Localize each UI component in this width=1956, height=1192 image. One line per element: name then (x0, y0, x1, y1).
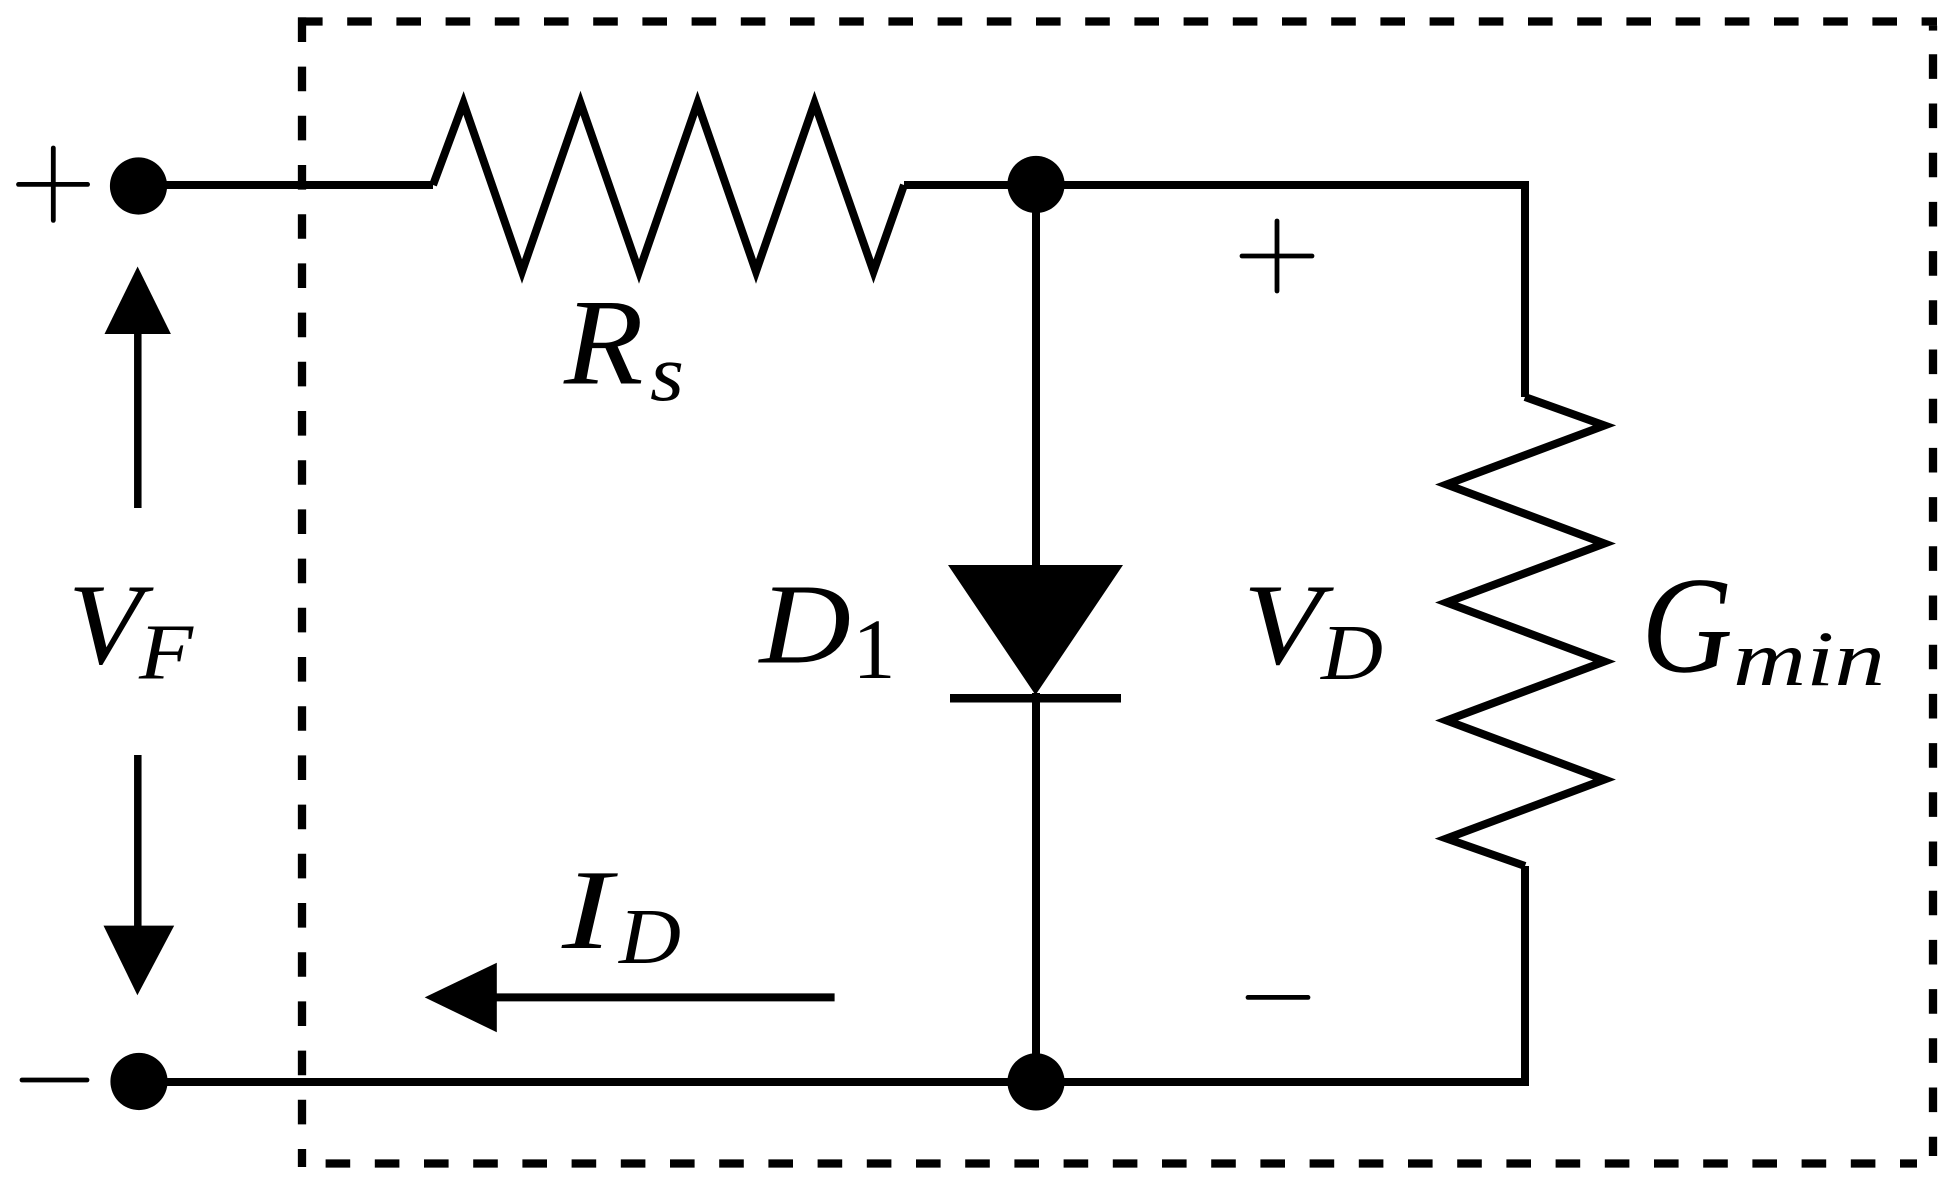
svg-text:D: D (1320, 610, 1383, 697)
svg-text:R: R (563, 274, 644, 411)
dashed box top-right corner stub (1929, 26, 1937, 31)
terminal - (bottom-left) (110, 1053, 167, 1110)
I_D arrowhead (425, 963, 497, 1032)
wire top-left: terminal to Rs (138, 181, 433, 189)
V_F down arrow shaft (134, 755, 142, 930)
wire R_s to node A (904, 181, 1040, 189)
wire bottom-right corner to node B (1032, 1078, 1529, 1086)
resistor G_min zigzag (1447, 397, 1605, 866)
node B (bottom junction) (1007, 1053, 1064, 1110)
svg-text:G: G (1641, 549, 1732, 702)
V_F up arrowhead (105, 267, 171, 335)
minus sign for V_D (1248, 995, 1308, 1000)
I_D arrow shaft (494, 993, 835, 1001)
svg-text:1: 1 (853, 601, 896, 697)
wire node B to terminal minus (138, 1078, 1040, 1086)
wire node A to diode D1 anode (1032, 185, 1040, 570)
svg-text:s: s (650, 330, 684, 418)
resistor R_s zigzag (433, 103, 904, 272)
svg-text:D: D (618, 894, 681, 981)
svg-text:D: D (757, 561, 851, 688)
wire top-right corner down to G_min (1521, 181, 1529, 397)
V_F up arrow shaft (134, 330, 142, 508)
dashed box right edge (1929, 54, 1937, 1156)
minus sign at bottom-left terminal (22, 1078, 87, 1083)
wire diode D1 cathode to node B (1032, 693, 1040, 1082)
diode D1 cathode bar (950, 694, 1121, 703)
plus sign for V_D (1242, 221, 1312, 291)
plus sign at V_F terminal (19, 148, 88, 220)
wire node A to top-right corner (1032, 181, 1525, 189)
dashed box left edge (298, 17, 306, 1167)
terminal + (top-left) (110, 157, 167, 214)
svg-text:min: min (1733, 615, 1885, 702)
svg-text:F: F (138, 610, 194, 697)
dashed box top edge (298, 17, 1937, 25)
dashed box bottom edge (326, 1159, 1917, 1167)
node A (top junction) (1007, 156, 1064, 213)
wire G_min to bottom-right corner (1521, 866, 1529, 1082)
V_F down arrowhead (104, 926, 175, 996)
svg-text:I: I (561, 846, 619, 973)
diode D1 triangle (anode) (948, 565, 1123, 695)
